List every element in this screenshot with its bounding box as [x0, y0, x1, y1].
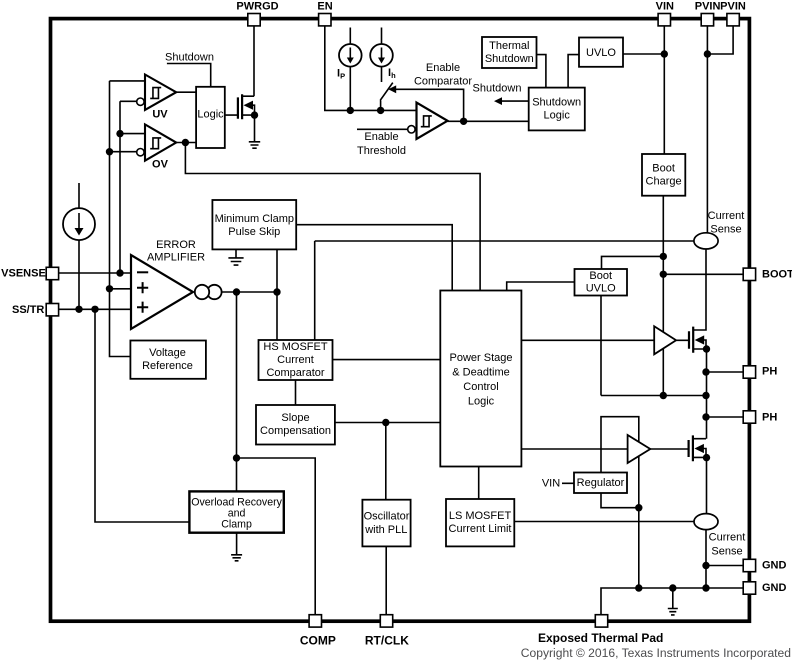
svg-text:COMP: COMP — [300, 633, 336, 647]
svg-text:Slope: Slope — [281, 412, 309, 424]
svg-text:with PLL: with PLL — [364, 524, 407, 536]
svg-text:LS MOSFET: LS MOSFET — [449, 510, 512, 522]
svg-text:AMPLIFIER: AMPLIFIER — [147, 252, 205, 264]
svg-text:Boot: Boot — [652, 163, 675, 175]
svg-text:Exposed Thermal Pad: Exposed Thermal Pad — [538, 631, 663, 645]
svg-text:Logic: Logic — [544, 110, 571, 122]
svg-text:UV: UV — [152, 108, 168, 120]
svg-text:Sense: Sense — [710, 224, 741, 236]
svg-text:Control: Control — [463, 381, 498, 393]
svg-text:Comparator: Comparator — [266, 367, 324, 379]
svg-text:Comparator: Comparator — [414, 76, 472, 88]
svg-text:Clamp: Clamp — [221, 519, 252, 531]
svg-text:Thermal: Thermal — [489, 40, 529, 52]
svg-text:BOOT: BOOT — [762, 268, 792, 280]
svg-text:Charge: Charge — [646, 176, 682, 188]
svg-text:Current: Current — [277, 354, 314, 366]
svg-text:PVIN: PVIN — [695, 0, 721, 12]
svg-text:Sense: Sense — [711, 546, 742, 558]
svg-text:GND: GND — [762, 560, 787, 572]
svg-text:Current: Current — [708, 210, 745, 222]
svg-text:SS/TR: SS/TR — [12, 304, 44, 316]
svg-text:PH: PH — [762, 411, 777, 423]
svg-text:Oscillator: Oscillator — [364, 511, 410, 523]
svg-text:VIN: VIN — [542, 477, 560, 489]
svg-text:OV: OV — [152, 159, 169, 171]
svg-text:Logic: Logic — [197, 109, 224, 121]
svg-text:ERROR: ERROR — [156, 239, 196, 251]
svg-text:VIN: VIN — [656, 0, 674, 12]
svg-text:UVLO: UVLO — [586, 283, 616, 295]
svg-text:Threshold: Threshold — [357, 145, 406, 157]
svg-text:GND: GND — [762, 582, 787, 594]
svg-text:Enable: Enable — [364, 131, 398, 143]
svg-text:Voltage: Voltage — [149, 347, 186, 359]
svg-text:VSENSE: VSENSE — [1, 268, 46, 280]
svg-text:Current: Current — [709, 532, 746, 544]
svg-text:PVIN: PVIN — [720, 0, 746, 12]
svg-text:Shutdown: Shutdown — [485, 53, 534, 65]
svg-text:RT/CLK: RT/CLK — [365, 633, 409, 647]
svg-text:UVLO: UVLO — [586, 47, 616, 59]
svg-text:Logic: Logic — [468, 396, 495, 408]
svg-text:Power Stage: Power Stage — [450, 352, 513, 364]
svg-text:Shutdown: Shutdown — [165, 52, 214, 64]
svg-text:PWRGD: PWRGD — [236, 0, 278, 12]
svg-text:Copyright © 2016, Texas Instru: Copyright © 2016, Texas Instruments Inco… — [521, 646, 791, 660]
svg-text:Compensation: Compensation — [260, 425, 331, 437]
svg-text:Reference: Reference — [142, 360, 193, 372]
svg-text:Minimum Clamp: Minimum Clamp — [215, 213, 294, 225]
svg-text:EN: EN — [317, 0, 332, 12]
svg-text:PH: PH — [762, 366, 777, 378]
svg-text:Regulator: Regulator — [577, 477, 625, 489]
svg-text:Current Limit: Current Limit — [449, 523, 512, 535]
svg-text:& Deadtime: & Deadtime — [452, 367, 509, 379]
svg-text:Pulse Skip: Pulse Skip — [228, 226, 280, 238]
svg-text:Shutdown: Shutdown — [532, 97, 581, 109]
svg-text:Boot: Boot — [589, 270, 612, 282]
svg-text:Enable: Enable — [426, 62, 460, 74]
svg-text:Shutdown: Shutdown — [473, 83, 522, 95]
svg-text:HS MOSFET: HS MOSFET — [263, 341, 327, 353]
